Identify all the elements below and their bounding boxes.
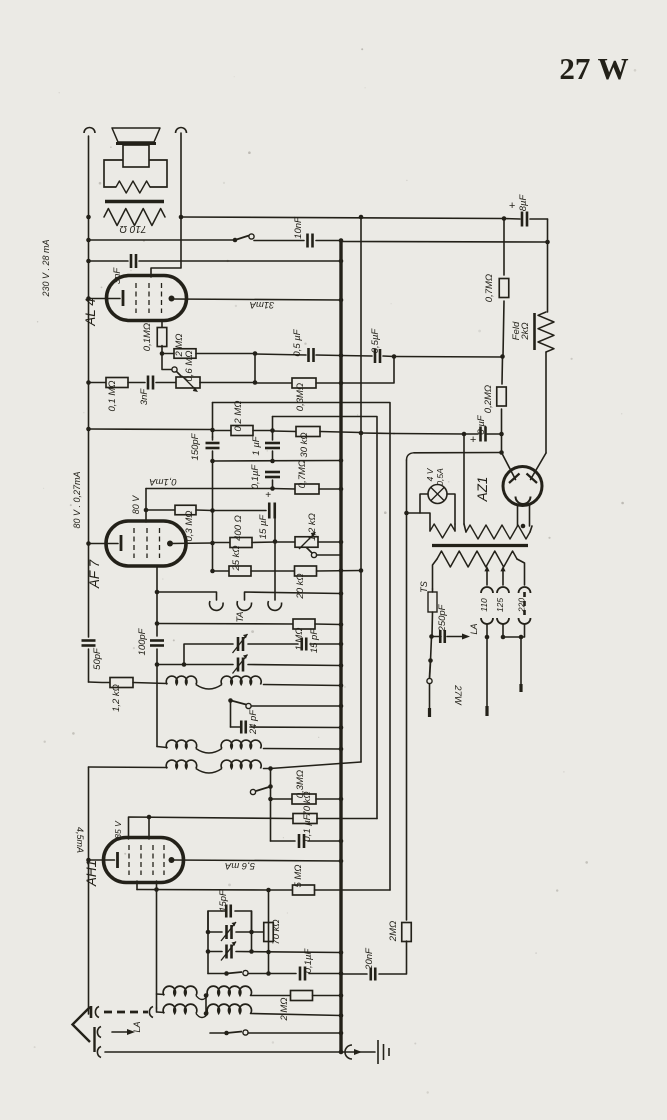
wire 250pF stub xyxy=(432,636,442,638)
AL4 anode dot xyxy=(169,296,175,302)
wire fuse to 250pF node xyxy=(431,612,434,636)
AZ1 right anode lead xyxy=(531,453,547,480)
wire pot to node 255 xyxy=(200,382,255,384)
svg-text:0,3MΩ: 0,3MΩ xyxy=(295,383,306,411)
row 932: trimmer xyxy=(208,931,222,933)
row 510: wire xyxy=(146,509,175,511)
capacitor 15pF osc xyxy=(222,910,226,912)
svg-text:0,7MΩ: 0,7MΩ xyxy=(484,274,495,302)
AH1 screen lead xyxy=(148,817,150,839)
wire to 30k xyxy=(273,430,297,433)
jack left stem xyxy=(157,592,217,600)
ground plug arc xyxy=(97,1047,101,1058)
wire row 461 xyxy=(213,460,342,463)
rounded corner to vert 408 xyxy=(407,453,415,460)
capacitor 0.5uF right xyxy=(375,349,380,363)
wire 1.2k to bus xyxy=(318,541,341,543)
socket arcs bottom row xyxy=(481,618,493,624)
capacitor 15uF electrolytic xyxy=(212,510,267,512)
wire bus to 0.5uF right xyxy=(341,355,372,358)
svg-text:5 MΩ: 5 MΩ xyxy=(293,864,304,887)
wire 8uF to corner xyxy=(530,218,548,220)
capacitor 15pF xyxy=(302,638,307,651)
trimmer cap lower xyxy=(238,658,243,672)
wire 394 to 0.7M line xyxy=(394,356,502,359)
AZ1 filament arc xyxy=(516,497,531,505)
node 268/952 xyxy=(266,950,271,955)
svg-text:AZ1: AZ1 xyxy=(475,477,490,503)
wire 3nF to pot box xyxy=(156,382,176,384)
vert 251 xyxy=(251,911,253,952)
tube AZ1 envelope xyxy=(503,467,542,506)
dashed link 220 xyxy=(523,592,526,618)
antenna top plug xyxy=(90,1006,93,1018)
node bus 685 xyxy=(339,683,344,688)
jack right stem xyxy=(274,542,276,601)
node 272/461 xyxy=(270,459,275,464)
svg-text:0,5µF: 0,5µF xyxy=(370,328,381,354)
capacitor 0.5uF left xyxy=(309,348,314,362)
row 817: 70k to v377 xyxy=(129,817,294,839)
svg-text:15 µF: 15 µF xyxy=(258,514,269,540)
AH1 grids dashed xyxy=(129,845,164,875)
resistor 0.1M AL4 grid2 xyxy=(157,328,167,347)
AH1 anode dot xyxy=(169,857,175,863)
svg-text:70 kΩ: 70 kΩ xyxy=(302,791,313,816)
node bus 799 xyxy=(339,797,344,802)
node bus 995 xyxy=(339,993,344,998)
resistor 0.2M row431 xyxy=(213,430,232,432)
svg-text:0,2 MΩ: 0,2 MΩ xyxy=(233,401,244,432)
wire bus to earth xyxy=(341,1051,375,1053)
capacitor 3nF row382 xyxy=(148,376,153,390)
node speaker right xyxy=(179,215,184,220)
wire 10nF to bus top xyxy=(316,240,341,242)
socket stems to junction row xyxy=(486,624,488,637)
primary left end down xyxy=(433,559,438,589)
tube AH1 envelope xyxy=(104,838,184,883)
svg-text:LA: LA xyxy=(469,623,479,634)
row 799: 0.3M xyxy=(268,797,273,802)
node bus 1033 xyxy=(339,1031,344,1036)
row 382: wire from left rail xyxy=(89,382,107,384)
wire row4 to 2M xyxy=(251,995,291,997)
wire v390 xyxy=(213,403,391,891)
field coil Feld 2k zigzag xyxy=(538,312,554,352)
capacitor 150pF xyxy=(212,437,214,440)
AF7 anode dot xyxy=(167,541,173,547)
svg-text:1 MΩ: 1 MΩ xyxy=(294,627,305,650)
IF coil row1 xyxy=(166,676,196,684)
wire AF7 top row 429 xyxy=(89,428,213,431)
mains primary winding xyxy=(437,551,517,567)
resistor 20k xyxy=(295,566,317,576)
node bus 355 xyxy=(339,353,344,358)
node 211/510 xyxy=(210,508,215,513)
svg-text:5,6 mA: 5,6 mA xyxy=(225,860,255,871)
node 255/382 xyxy=(253,380,258,385)
coil row4 xyxy=(157,993,165,996)
wire 504 down to 0.7M xyxy=(503,219,505,276)
node bus 1015 xyxy=(339,1013,344,1018)
svg-text:AL 4: AL 4 xyxy=(83,298,98,327)
svg-text:4 V: 4 V xyxy=(425,467,435,481)
node bus 841 xyxy=(339,839,344,844)
svg-text:27 W: 27 W xyxy=(559,51,628,86)
field coil Feld 2k core bars xyxy=(533,313,536,350)
row 665: trimmer xyxy=(157,664,233,666)
resistor 1.2k IF xyxy=(110,678,133,688)
wire v377 xyxy=(273,417,378,819)
jack middle stem xyxy=(245,592,342,600)
jack middle arc TA xyxy=(237,601,251,610)
svg-text:1,2 kΩ: 1,2 kΩ xyxy=(307,513,318,541)
capacitor 20nF xyxy=(371,968,376,981)
node bus 383 xyxy=(339,381,344,386)
wire 3nF to bus xyxy=(139,260,341,262)
vert 213 down xyxy=(212,403,214,438)
chassis arc xyxy=(345,1045,352,1059)
node bus 749 xyxy=(339,747,344,752)
row 706 switch xyxy=(251,705,341,707)
socket arcs top row xyxy=(481,587,493,593)
jog down from node 394 xyxy=(341,357,394,384)
vert 208 xyxy=(207,911,209,974)
coil row5 xyxy=(156,1008,158,1012)
wire 0.2M line xyxy=(501,357,504,385)
node 157/623 xyxy=(155,621,160,626)
node 268/932 xyxy=(266,930,271,935)
wire row1 to bus xyxy=(264,685,342,686)
resistor 25k xyxy=(229,566,251,576)
IF coil row2 xyxy=(157,747,167,748)
svg-text:24 pF: 24 pF xyxy=(248,709,259,735)
svg-text:150pF: 150pF xyxy=(190,432,201,460)
AH1 bottom leads xyxy=(136,881,138,890)
wire 2M down corner xyxy=(379,941,407,974)
mains switch xyxy=(428,658,433,663)
wire antenna ground to bus xyxy=(105,1051,341,1053)
capacitor 50pF in left rail xyxy=(82,641,96,646)
wire 0.6M pot tap xyxy=(162,354,172,370)
node bus 489 xyxy=(339,487,344,492)
svg-text:20 kΩ: 20 kΩ xyxy=(295,573,306,599)
mains terminal tick xyxy=(428,708,431,717)
svg-text:0,1 µF: 0,1 µF xyxy=(302,813,313,841)
lamp 4V 0.5A xyxy=(428,485,447,504)
svg-text:70 kΩ: 70 kΩ xyxy=(271,919,282,944)
node bus 571 xyxy=(339,568,344,573)
switch S1 contact xyxy=(233,238,238,243)
node 504 top xyxy=(502,216,507,221)
resistor 2M vertical xyxy=(402,923,412,942)
resistor 2M ant xyxy=(291,991,313,1001)
svg-text:27W: 27W xyxy=(452,684,463,706)
node 206/995 xyxy=(204,993,209,998)
svg-text:230 V . 28 mA: 230 V . 28 mA xyxy=(41,239,51,297)
wire 30k through bus to v361 xyxy=(320,432,361,433)
wire AL4 anode 31mA to bus xyxy=(172,299,342,300)
wire 0.3M to jog xyxy=(316,382,341,384)
node 8uF right xyxy=(499,432,504,437)
LA terminal tick xyxy=(485,706,488,716)
node 213/430 xyxy=(210,428,215,433)
potentiometer 0.6 Mohm xyxy=(176,377,200,388)
wire left rail lower segment xyxy=(88,767,90,1014)
AL4 cathode xyxy=(122,290,125,306)
capacitor 1uF xyxy=(272,417,274,441)
wire 150pF to node 461 xyxy=(212,451,214,461)
svg-text:0,5 µF: 0,5 µF xyxy=(292,328,303,356)
resistor 0.1M row382 xyxy=(106,378,128,388)
svg-text:110: 110 xyxy=(479,598,489,612)
svg-text:+: + xyxy=(470,434,477,446)
arrow LA xyxy=(447,636,462,638)
row 951: trimmer xyxy=(208,951,222,953)
node 275/541 xyxy=(273,539,278,544)
resistor 0.3M row383 xyxy=(292,378,316,388)
wire node255 to 0.3M xyxy=(255,382,292,384)
vert 268 xyxy=(268,890,270,974)
LA plug row xyxy=(93,1027,95,1052)
node bus 665 xyxy=(339,663,344,668)
loudspeaker voice coil xyxy=(123,145,149,167)
svg-text:8 µF: 8 µF xyxy=(476,414,487,434)
wire switch branch xyxy=(431,637,432,661)
wire left rail top segment xyxy=(88,136,90,637)
AF7 bottom lead xyxy=(156,566,158,637)
chassis bus thick vertical xyxy=(339,241,342,1053)
resistor 2 Mohm xyxy=(174,349,196,359)
svg-text:10nF: 10nF xyxy=(293,216,304,239)
pot lever into box xyxy=(177,372,183,378)
resistor 70k vertical xyxy=(264,923,274,942)
svg-text:30 kΩ: 30 kΩ xyxy=(299,432,310,457)
svg-text:15 pF: 15 pF xyxy=(309,628,320,653)
row 890: 5M to v390 xyxy=(137,889,269,892)
capacitor 10nF xyxy=(308,234,313,248)
wire to bus 0.5uF row xyxy=(255,354,306,355)
node bus ground xyxy=(339,1050,344,1055)
arrow LA antenna xyxy=(112,1031,127,1033)
wire 0.1M to node xyxy=(161,346,163,354)
resistor 0.3M row489 xyxy=(295,484,319,494)
svg-text:TS: TS xyxy=(419,581,429,593)
resistor 1M xyxy=(293,619,315,629)
node bus top xyxy=(339,238,344,243)
block top row 911: 15pF xyxy=(208,911,222,932)
svg-text:2MΩ: 2MΩ xyxy=(388,921,399,942)
wire right rail from hook to 710 ohm xyxy=(180,133,182,217)
wire v361 to 8uF B+ rail xyxy=(361,432,394,435)
wire top rail xyxy=(181,217,504,219)
node 211/543 xyxy=(210,541,215,546)
node row3 xyxy=(268,766,273,771)
svg-text:3nF: 3nF xyxy=(139,388,150,406)
wire to bus xyxy=(316,354,341,357)
vertical 255 xyxy=(254,354,256,383)
potentiometer 1.2k with arrow xyxy=(295,537,318,548)
vert 206 xyxy=(205,996,207,1014)
jack left arc xyxy=(209,601,223,610)
svg-text:15pF: 15pF xyxy=(218,889,229,912)
svg-text:31mA: 31mA xyxy=(250,299,275,310)
wire 80V corner down to AF7 xyxy=(145,489,147,523)
antenna symbol xyxy=(73,1007,91,1042)
heater winding zigzag xyxy=(466,525,530,539)
svg-text:0,7MΩ: 0,7MΩ xyxy=(297,460,308,488)
AH1 cathode lead to left rail xyxy=(89,859,104,861)
AL4 cathode lead to left rail xyxy=(89,298,107,300)
stub 230 down xyxy=(230,701,232,728)
svg-text:80 V: 80 V xyxy=(131,495,141,515)
svg-text:710 Ω: 710 Ω xyxy=(119,223,146,234)
node bus 952 xyxy=(339,950,344,955)
node at Feld line xyxy=(545,240,550,245)
pot tap to bus xyxy=(307,548,313,554)
resistor 30k xyxy=(296,427,320,437)
svg-text:25 kΩ: 25 kΩ xyxy=(231,545,242,571)
vert 156 down to antenna xyxy=(156,890,158,1009)
wire 0.2M down to AZ1 xyxy=(501,409,503,453)
fuse TS xyxy=(428,592,437,612)
pot arrow xyxy=(182,376,196,390)
vert 270 down xyxy=(270,769,272,842)
svg-text:2 MΩ: 2 MΩ xyxy=(279,997,290,1021)
svg-text:0,1mA: 0,1mA xyxy=(149,476,176,487)
loudspeaker cone xyxy=(112,128,160,142)
pilot winding tap zigzag xyxy=(430,524,455,538)
capacitor 0.1uF xyxy=(265,472,280,477)
wire B+ rail into 8uF xyxy=(394,433,464,436)
svg-text:0,3 MΩ: 0,3 MΩ xyxy=(184,511,195,542)
svg-text:1 µF: 1 µF xyxy=(251,435,262,455)
row 973: switch + 0.1uF xyxy=(208,973,224,975)
wire AL4 to 0.1M xyxy=(161,320,163,329)
arc into coil row5 xyxy=(149,1007,153,1018)
svg-text:0,1µF: 0,1µF xyxy=(303,948,314,974)
wire bus top to Feld line xyxy=(341,241,548,244)
svg-text:0,1µF: 0,1µF xyxy=(250,464,261,490)
svg-text:250pF: 250pF xyxy=(437,603,448,632)
output transformer box with resistor xyxy=(104,160,167,187)
row 542: 400 ohm xyxy=(212,542,231,544)
row 644: trimmer + 15pF xyxy=(184,644,233,665)
svg-text:2kΩ: 2kΩ xyxy=(520,322,531,340)
svg-text:20nF: 20nF xyxy=(364,947,375,971)
node 206/1013 xyxy=(204,1011,209,1016)
svg-text:+: + xyxy=(265,490,271,501)
lamp right lead xyxy=(447,494,455,524)
svg-text:125: 125 xyxy=(495,598,505,612)
wire from left rail to mains switch xyxy=(89,239,236,241)
svg-text:0,1 MΩ: 0,1 MΩ xyxy=(107,381,118,412)
transformer core bar AZ1 xyxy=(432,544,528,547)
wire into 8uF xyxy=(504,218,520,221)
node bus 727 xyxy=(339,725,344,730)
svg-text:100pF: 100pF xyxy=(137,627,148,655)
wire node to 2M xyxy=(162,353,174,355)
primary right end to 220 tap xyxy=(517,559,525,585)
row 624 wire xyxy=(157,623,293,626)
wire AH1 anode 5.6mA to bus xyxy=(172,860,342,861)
row 841: 0.1uF xyxy=(271,840,296,842)
wire v406 xyxy=(406,460,408,920)
wire 0.7M to node 356 xyxy=(503,301,504,357)
wire 0.2M to 1uF node xyxy=(253,430,273,432)
svg-text:TA: TA xyxy=(235,612,245,623)
svg-text:85 V: 85 V xyxy=(113,820,123,839)
wire AF7 anode to 211 xyxy=(170,542,213,545)
switch row 1033 xyxy=(224,1031,229,1036)
lamp left lead xyxy=(407,494,429,513)
svg-text:1,2 kΩ: 1,2 kΩ xyxy=(111,684,122,712)
capacitor 0.1uF ant xyxy=(300,967,305,981)
node bus 3nF row xyxy=(339,259,344,264)
speaker terminal hook left xyxy=(84,128,95,134)
node speaker left xyxy=(86,215,91,220)
wire 8uF right stub xyxy=(487,433,502,435)
jack right arc xyxy=(268,601,282,610)
wire switch to 10nF xyxy=(254,240,304,242)
AH1 cathode xyxy=(116,852,119,868)
capacitor 0.1uF osc xyxy=(299,834,304,848)
resistor 710 ohm field winding xyxy=(104,209,165,226)
svg-text:400 Ω: 400 Ω xyxy=(233,515,244,541)
osc coil row3 xyxy=(89,766,168,769)
wire row5 to bus xyxy=(251,1014,342,1016)
wire Feld to AZ1 right lead xyxy=(545,352,547,453)
AF7 cathode xyxy=(120,535,123,551)
AZ1 filament legs to heater winding xyxy=(517,505,519,527)
capacitor 3nF xyxy=(131,254,136,268)
Feld line corner down xyxy=(547,219,549,312)
wire 2M to node 255 xyxy=(196,353,255,355)
resistor 0.7 Mohm xyxy=(499,279,509,298)
svg-text:+: + xyxy=(509,200,516,212)
transformer core bar xyxy=(105,200,164,203)
wire 8uF left to node 464 xyxy=(464,433,478,435)
resistor 0.2 Mohm right xyxy=(497,387,507,406)
wire row 489 xyxy=(146,488,273,490)
node bus 624 xyxy=(339,622,344,627)
node bus 644 xyxy=(339,642,344,647)
node 394/356 xyxy=(392,354,397,359)
capacitor 100pF xyxy=(150,641,164,646)
wire to 1.2k pot xyxy=(275,541,295,543)
wire to 3nF xyxy=(128,382,145,384)
AF7 cathode lead to left rail xyxy=(89,543,107,545)
wire v361 xyxy=(360,217,362,762)
node bus 31mA xyxy=(339,298,344,303)
svg-text:80 V . 0,27mA: 80 V . 0,27mA xyxy=(72,471,82,528)
node 353 xyxy=(160,351,165,356)
AZ1 left anode lead xyxy=(502,453,516,480)
resistor 5M xyxy=(293,885,315,895)
svg-text:0,6 MΩ: 0,6 MΩ xyxy=(184,351,195,382)
resistor 0.3M AF7 screen xyxy=(175,505,196,515)
tube AF7 envelope xyxy=(106,521,186,566)
node 149/817 xyxy=(147,815,152,820)
wire 1.2k row xyxy=(89,681,111,684)
row 727 24pF xyxy=(231,726,241,728)
tap arrow 110 xyxy=(486,570,488,585)
trimmer cap upper xyxy=(238,637,243,651)
speaker terminal hook right xyxy=(176,128,187,134)
svg-text:50pF: 50pF xyxy=(92,647,103,670)
wire junction row to LA terminal xyxy=(486,637,488,706)
svg-text:8µF: 8µF xyxy=(518,194,529,212)
